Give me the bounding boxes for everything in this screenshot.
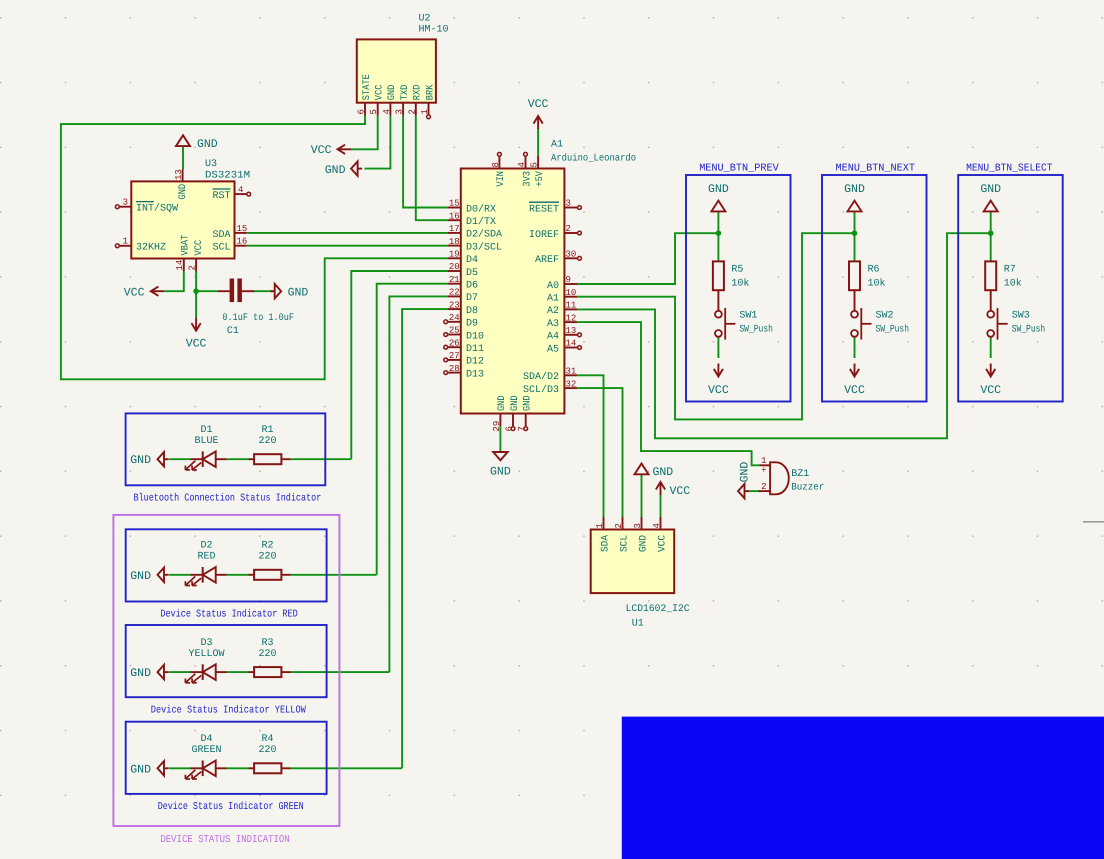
svg-text:1: 1 <box>420 109 430 114</box>
wire Arduino SDA/D2 to LCD SDA <box>577 375 603 517</box>
svg-text:D10: D10 <box>466 331 484 342</box>
wire LCD VCC pin to VCC symbol <box>660 494 662 517</box>
power GND (MENU_BTN_SELECT) <box>984 201 998 212</box>
box MENU_BTN_NEXT <box>822 175 927 402</box>
svg-text:R1: R1 <box>261 425 273 436</box>
U3 left pin 3 INT/SQW <box>120 206 132 208</box>
U3 right pin 4 RST <box>235 193 247 195</box>
svg-text:16: 16 <box>237 237 248 247</box>
svg-text:25: 25 <box>449 326 460 336</box>
svg-text:6: 6 <box>357 109 367 114</box>
A1 left pin 23 D8 <box>448 308 461 310</box>
wire R6 to SW2 <box>854 290 856 311</box>
power GND (MENU_BTN_PREV) <box>711 201 725 212</box>
svg-text:VCC: VCC <box>186 338 207 351</box>
svg-text:SDA/D2: SDA/D2 <box>523 371 559 383</box>
A1 top pin 4 3V3 <box>525 156 527 169</box>
A1 left pin 18 D3/SCL <box>448 245 461 247</box>
svg-text:Device Status Indicator YELLOW: Device Status Indicator YELLOW <box>151 705 307 717</box>
svg-text:GND: GND <box>523 395 534 411</box>
svg-text:D11: D11 <box>466 344 484 355</box>
svg-text:C1: C1 <box>227 326 239 337</box>
svg-text:GREEN: GREEN <box>191 745 221 756</box>
svg-text:VCC: VCC <box>670 485 691 498</box>
junction MENU_BTN_SELECT node <box>988 230 994 236</box>
A1 right pin 13 A4 <box>564 334 577 336</box>
svg-text:GND: GND <box>130 667 151 680</box>
svg-text:A5: A5 <box>547 344 559 355</box>
box Bluetooth Connection Status Indicator <box>126 413 326 485</box>
power VCC (MENU_BTN_NEXT) <box>854 364 856 377</box>
wire Arduino A2 to MENU_BTN_SELECT node <box>577 233 991 438</box>
power GND (LED D1) <box>158 452 165 466</box>
junction at U3 VCC node <box>193 288 199 294</box>
svg-text:30: 30 <box>566 250 577 260</box>
svg-text:SCL: SCL <box>212 243 230 254</box>
wire R5 to SW1 <box>717 290 719 311</box>
blue bitmap image placeholder <box>622 717 1104 859</box>
svg-text:BRK: BRK <box>425 85 436 101</box>
wire Arduino +5V to VCC symbol <box>537 128 539 156</box>
IC U3 DS3231M body <box>131 181 234 258</box>
switch SW1 SW_Push <box>715 311 722 318</box>
power GND (LED D2) <box>158 568 165 582</box>
svg-text:GND: GND <box>497 395 508 411</box>
svg-text:13: 13 <box>174 169 184 180</box>
svg-text:GND: GND <box>490 466 511 479</box>
wire GND to LED D3 anode <box>169 671 191 673</box>
svg-text:17: 17 <box>449 224 460 234</box>
svg-text:SDA: SDA <box>600 535 611 552</box>
box DEVICE STATUS INDICATION (purple) <box>113 515 339 826</box>
A1 right pin 31 SDA/D2 <box>564 374 577 376</box>
wire HM-10 RXD to Arduino D1/TX <box>416 115 448 220</box>
svg-text:GND: GND <box>288 286 309 299</box>
svg-text:GND: GND <box>844 183 865 196</box>
svg-text:SDA: SDA <box>212 230 230 241</box>
U3 left pin 1 32KHZ <box>120 245 132 247</box>
svg-text:MENU_BTN_PREV: MENU_BTN_PREV <box>699 163 779 175</box>
svg-text:R6: R6 <box>868 265 880 276</box>
svg-text:D12: D12 <box>466 357 484 368</box>
svg-text:4: 4 <box>238 185 243 195</box>
display U1 LCD1602_I2C body <box>591 530 675 594</box>
svg-text:VCC: VCC <box>194 240 205 256</box>
svg-text:R5: R5 <box>731 265 743 276</box>
svg-text:13: 13 <box>566 326 577 336</box>
svg-text:15: 15 <box>449 199 460 209</box>
U3 top pin 13 GND <box>182 170 184 182</box>
wire U3 SDA to Arduino D2/SDA <box>247 232 448 234</box>
svg-text:12: 12 <box>566 313 577 323</box>
svg-text:GND: GND <box>387 85 398 101</box>
MCU A1 Arduino_Leonardo body <box>461 169 565 414</box>
svg-text:26: 26 <box>449 338 460 348</box>
svg-text:RESET: RESET <box>529 204 559 215</box>
A1 left pin 26 D11 <box>448 346 461 348</box>
LED D4 GREEN <box>191 767 203 769</box>
svg-text:4: 4 <box>652 523 662 528</box>
svg-text:A3: A3 <box>547 319 559 330</box>
svg-text:A1: A1 <box>551 140 563 151</box>
A1 bottom pin 6 GND <box>512 414 514 427</box>
svg-text:220: 220 <box>258 649 276 660</box>
wire U3 SCL to Arduino D3/SCL <box>247 245 448 247</box>
svg-text:HM-10: HM-10 <box>419 25 449 36</box>
BZ1 pin 2 <box>759 490 770 492</box>
power GND (C1 right) <box>275 284 282 298</box>
LED D3 YELLOW <box>191 671 203 673</box>
svg-text:D5: D5 <box>466 268 478 279</box>
svg-text:A1: A1 <box>547 294 559 305</box>
wire HM-10 STATE to Arduino D4 (big loop) <box>61 115 448 379</box>
svg-text:SCL/D3: SCL/D3 <box>523 384 559 396</box>
wire U3 VCC pin 2 to VCC symbol and C1 <box>195 271 197 318</box>
A1 left pin 27 D12 <box>448 359 461 361</box>
wire C1 right plate to GND symbol <box>253 290 273 292</box>
svg-text:11: 11 <box>566 301 577 311</box>
A1 right pin 10 A1 <box>564 296 577 298</box>
wire junction to C1 left plate <box>196 290 218 292</box>
svg-text:+5V: +5V <box>535 171 546 187</box>
resistor R7 10k <box>985 261 996 290</box>
svg-text:+: + <box>761 466 766 476</box>
svg-text:GND: GND <box>178 184 189 200</box>
wire resistor R4 output <box>291 767 403 769</box>
wire HM-10 TXD to Arduino D0/RX <box>403 115 448 207</box>
svg-text:24: 24 <box>449 313 460 323</box>
svg-text:8: 8 <box>491 162 501 167</box>
svg-text:32: 32 <box>566 379 577 389</box>
svg-text:GND: GND <box>739 462 752 483</box>
BZ1 pin 1 + <box>760 464 771 466</box>
A1 right pin 2 IOREF <box>564 232 577 234</box>
A1 right pin 3 RESET <box>564 207 577 209</box>
svg-text:4: 4 <box>517 162 527 167</box>
svg-text:20: 20 <box>449 262 460 272</box>
svg-text:D4: D4 <box>200 734 212 745</box>
svg-text:LCD1602_I2C: LCD1602_I2C <box>626 604 690 615</box>
power VCC (MENU_BTN_SELECT) <box>990 364 992 377</box>
svg-text:VCC: VCC <box>528 98 549 111</box>
svg-text:2: 2 <box>407 109 417 114</box>
svg-text:GND: GND <box>197 138 218 151</box>
switch SW3 SW_Push <box>987 311 994 318</box>
wire resistor R2 output <box>291 574 377 576</box>
svg-text:Arduino_Leonardo: Arduino_Leonardo <box>551 153 636 165</box>
resistor R4 220 <box>249 767 255 769</box>
power GND (MENU_BTN_NEXT) <box>848 201 862 212</box>
power VCC (MENU_BTN_PREV) <box>717 364 719 377</box>
svg-text:VCC: VCC <box>124 286 145 299</box>
svg-text:GND: GND <box>638 535 649 552</box>
svg-text:VIN: VIN <box>496 171 507 187</box>
svg-text:MENU_BTN_NEXT: MENU_BTN_NEXT <box>836 163 916 175</box>
svg-text:A2: A2 <box>547 306 559 317</box>
wire GND to LED D4 anode <box>169 767 191 769</box>
A1 right pin 12 A3 <box>564 321 577 323</box>
power GND (U3 top) <box>176 135 190 146</box>
wire SW3 to VCC symbol <box>990 337 992 359</box>
module U2 HM-10 body <box>357 39 436 102</box>
wire Arduino SCL/D3 to LCD SCL <box>577 388 622 517</box>
wire LCD GND pin to GND symbol <box>641 475 643 518</box>
svg-text:U2: U2 <box>419 14 431 25</box>
svg-text:2: 2 <box>566 224 571 234</box>
wire Arduino D5 to R1 (blue LED) <box>351 271 448 459</box>
svg-text:VCC: VCC <box>375 85 386 101</box>
A1 right pin 14 A5 <box>564 347 577 349</box>
svg-text:GND: GND <box>130 570 151 583</box>
A1 left pin 22 D7 <box>448 295 461 297</box>
power VCC (U3 pin2, down) <box>195 318 197 331</box>
wire U3 GND pin 13 to GND symbol <box>182 146 184 169</box>
svg-text:Buzzer: Buzzer <box>791 483 824 494</box>
resistor R5 10k <box>713 261 724 290</box>
svg-text:220: 220 <box>258 436 276 447</box>
svg-text:SW_Push: SW_Push <box>739 324 773 336</box>
svg-text:4: 4 <box>382 109 392 114</box>
svg-text:2: 2 <box>187 265 197 270</box>
svg-text:IOREF: IOREF <box>529 230 559 241</box>
svg-text:Bluetooth Connection Status In: Bluetooth Connection Status Indicator <box>134 493 322 505</box>
wire R7 to SW3 <box>990 290 992 311</box>
A1 top pin 5 +5V <box>537 156 539 169</box>
svg-text:SCL: SCL <box>619 535 630 552</box>
svg-text:D0/RX: D0/RX <box>466 203 496 215</box>
power VCC (HM-10) <box>338 148 352 150</box>
svg-text:U3: U3 <box>205 159 217 170</box>
svg-text:BZ1: BZ1 <box>791 469 809 480</box>
U3 bottom pin 14 VBAT <box>183 259 185 272</box>
A1 left pin 20 D5 <box>448 270 461 272</box>
wire MENU_BTN_NEXT GND to R6 <box>854 211 856 261</box>
power VCC (LCD pin4) <box>660 482 662 495</box>
wire LED D3 to resistor R3 <box>227 671 249 673</box>
svg-text:2: 2 <box>761 482 766 492</box>
wire Arduino A1 to MENU_BTN_NEXT node <box>577 233 854 419</box>
power GND (Arduino pin29) <box>493 452 507 460</box>
A1 left pin 15 D0/RX <box>448 207 461 209</box>
svg-text:STATE: STATE <box>362 74 373 100</box>
svg-text:D13: D13 <box>466 369 484 380</box>
buzzer BZ1 body <box>770 462 789 494</box>
svg-text:1: 1 <box>123 237 128 247</box>
svg-text:27: 27 <box>449 351 460 361</box>
wire GND to LED D2 anode <box>169 574 191 576</box>
svg-text:INT/SQW: INT/SQW <box>136 203 178 215</box>
svg-text:RED: RED <box>197 552 215 563</box>
A1 bottom pin 7 GND <box>525 414 527 427</box>
power GND (HM-10) <box>351 161 358 175</box>
U2 unconnected pin 1 BRK <box>427 115 431 119</box>
A1 right pin 9 A0 <box>564 283 577 285</box>
svg-text:SW3: SW3 <box>1012 311 1030 322</box>
U1 pin 3 GND <box>641 517 643 530</box>
svg-text:31: 31 <box>566 367 577 377</box>
wire GND to LED D1 anode <box>169 458 191 460</box>
A1 bottom pin 29 GND <box>499 414 501 427</box>
capacitor C1 plates <box>230 279 235 303</box>
power GND (LED D4) <box>158 761 165 775</box>
svg-text:RXD: RXD <box>413 85 424 101</box>
svg-text:19: 19 <box>449 250 460 260</box>
svg-text:D2: D2 <box>200 541 212 552</box>
power GND (LED D3) <box>158 665 165 679</box>
svg-text:GND: GND <box>708 183 729 196</box>
U1 pin 2 SCL <box>622 517 624 530</box>
svg-text:D1/TX: D1/TX <box>466 216 496 228</box>
A1 left pin 25 D10 <box>448 334 461 336</box>
C1 leads <box>218 290 230 292</box>
wire LED D4 to resistor R4 <box>227 767 249 769</box>
svg-text:5: 5 <box>530 162 540 167</box>
svg-text:Device Status Indicator RED: Device Status Indicator RED <box>160 609 297 621</box>
svg-text:VCC: VCC <box>708 384 729 397</box>
A1 left pin 24 D9 <box>448 321 461 323</box>
svg-text:220: 220 <box>258 552 276 563</box>
wire resistor R1 output <box>291 458 352 460</box>
resistor R1 220 <box>249 458 255 460</box>
A1 left pin 16 D1/TX <box>448 219 461 221</box>
svg-text:D9: D9 <box>466 319 478 330</box>
svg-text:1: 1 <box>595 523 605 528</box>
svg-text:SW1: SW1 <box>739 311 757 322</box>
A1 left pin 19 D4 <box>448 257 461 259</box>
svg-text:GND: GND <box>980 183 1001 196</box>
box Device Status Indicator GREEN <box>126 722 327 794</box>
svg-text:3: 3 <box>633 523 643 528</box>
svg-text:D4: D4 <box>466 255 478 266</box>
wire Arduino D7 to R3 (yellow LED) <box>389 296 448 672</box>
U1 pin 1 SDA <box>603 517 605 530</box>
svg-text:23: 23 <box>449 300 460 310</box>
svg-text:RST: RST <box>212 191 230 202</box>
svg-text:D3/SCL: D3/SCL <box>466 241 502 253</box>
wire U3 VBAT to VCC symbol <box>165 271 184 291</box>
A1 right pin 11 A2 <box>564 308 577 310</box>
svg-text:3: 3 <box>566 199 571 209</box>
svg-text:A4: A4 <box>547 332 559 343</box>
svg-text:VCC: VCC <box>844 384 865 397</box>
svg-text:VBAT: VBAT <box>181 235 192 256</box>
U3 right pin 15 SDA <box>235 232 247 234</box>
svg-text:GND: GND <box>130 763 151 776</box>
resistor R6 10k <box>849 261 860 290</box>
svg-text:10k: 10k <box>868 278 886 290</box>
box Device Status Indicator RED <box>126 529 327 601</box>
wire MENU_BTN_SELECT GND to R7 <box>990 211 992 261</box>
svg-text:YELLOW: YELLOW <box>188 649 224 660</box>
svg-text:32KHZ: 32KHZ <box>136 243 166 254</box>
A1 left pin 17 D2/SDA <box>448 232 461 234</box>
svg-text:3: 3 <box>395 109 405 114</box>
svg-text:R7: R7 <box>1004 265 1016 276</box>
svg-text:14: 14 <box>175 260 185 271</box>
box MENU_BTN_PREV <box>686 175 791 402</box>
power GND (buzzer pin2) <box>738 484 745 498</box>
svg-text:D3: D3 <box>200 638 212 649</box>
junction MENU_BTN_NEXT node <box>852 230 858 236</box>
svg-text:28: 28 <box>449 364 460 374</box>
A1 right pin 30 AREF <box>564 257 577 259</box>
svg-text:SW_Push: SW_Push <box>876 324 910 336</box>
svg-text:1: 1 <box>761 456 766 466</box>
svg-text:15: 15 <box>237 224 248 234</box>
svg-text:10k: 10k <box>731 278 749 290</box>
svg-text:10: 10 <box>566 288 577 298</box>
svg-text:D6: D6 <box>466 281 478 292</box>
wire Arduino GND pin 29 to GND symbol <box>499 426 501 452</box>
U3 right pin 16 SCL <box>235 245 247 247</box>
svg-text:AREF: AREF <box>535 255 559 266</box>
svg-text:16: 16 <box>449 211 460 221</box>
switch SW2 SW_Push <box>851 311 858 318</box>
svg-text:18: 18 <box>449 237 460 247</box>
wire LED D1 to resistor R1 <box>227 458 249 460</box>
wire resistor R3 output <box>291 671 390 673</box>
svg-text:10k: 10k <box>1004 278 1022 290</box>
U3 bottom pin 2 VCC <box>195 259 197 272</box>
wire HM-10 GND pin to GND symbol <box>365 115 391 168</box>
svg-text:D8: D8 <box>466 306 478 317</box>
svg-text:D2/SDA: D2/SDA <box>466 229 502 241</box>
svg-text:29: 29 <box>492 421 502 432</box>
svg-text:TXD: TXD <box>400 85 411 101</box>
svg-text:BLUE: BLUE <box>194 436 218 447</box>
svg-text:D7: D7 <box>466 293 478 304</box>
svg-text:GND: GND <box>130 454 151 467</box>
svg-text:5: 5 <box>369 109 379 114</box>
A1 left pin 21 D6 <box>448 283 461 285</box>
resistor R3 220 <box>249 671 255 673</box>
svg-text:SW_Push: SW_Push <box>1012 324 1045 336</box>
svg-text:U1: U1 <box>632 619 644 630</box>
svg-text:3: 3 <box>123 198 128 208</box>
svg-text:0.1uF to 1.0uF: 0.1uF to 1.0uF <box>222 313 294 324</box>
wire HM-10 VCC pin to VCC symbol <box>351 115 378 149</box>
svg-text:R4: R4 <box>261 734 273 745</box>
svg-text:22: 22 <box>449 288 460 298</box>
svg-text:VCC: VCC <box>311 144 332 157</box>
A1 top pin 8 VIN <box>498 156 500 169</box>
svg-text:2: 2 <box>614 523 624 528</box>
power VCC (U3 VBAT) <box>151 290 165 292</box>
wire LED D2 to resistor R2 <box>227 574 249 576</box>
svg-text:3V3: 3V3 <box>522 171 533 187</box>
wire SW2 to VCC symbol <box>854 337 856 359</box>
svg-text:VCC: VCC <box>657 535 668 552</box>
svg-text:DS3231M: DS3231M <box>205 170 250 181</box>
wire Arduino D8 to R4 (green LED) <box>402 309 448 768</box>
page boundary tick <box>1083 521 1104 523</box>
wire Arduino A3 to buzzer BZ1 pin 1 <box>577 322 759 465</box>
svg-text:MENU_BTN_SELECT: MENU_BTN_SELECT <box>966 163 1052 175</box>
svg-text:SW2: SW2 <box>876 311 894 322</box>
svg-text:21: 21 <box>449 275 460 285</box>
wire buzzer pin 2 to GND symbol <box>749 490 761 492</box>
svg-text:14: 14 <box>566 339 577 349</box>
resistor R2 220 <box>249 574 255 576</box>
wire Arduino D6 to R2 (red LED) <box>377 284 448 575</box>
svg-text:GND: GND <box>510 395 521 411</box>
LED D2 RED <box>191 574 203 576</box>
svg-text:220: 220 <box>258 745 276 756</box>
junction MENU_BTN_PREV node <box>716 230 722 236</box>
wire Arduino A0 to MENU_BTN_PREV node <box>577 233 718 284</box>
box Device Status Indicator YELLOW <box>126 625 327 697</box>
svg-text:GND: GND <box>653 466 674 479</box>
